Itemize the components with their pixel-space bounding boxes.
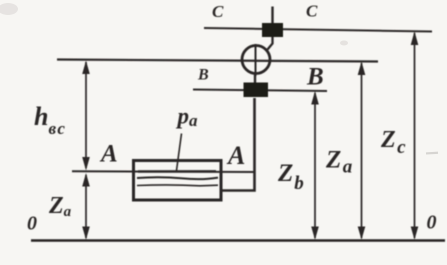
dimension Z_a (right, gauge line to datum)	[361, 63, 363, 238]
svg-text:C: C	[306, 2, 318, 21]
svg-text:A: A	[226, 141, 245, 170]
level line B	[193, 90, 327, 92]
faint scan smudge near gauge line right	[340, 41, 348, 46]
gauge vertical axis line	[255, 44, 257, 76]
level line C	[204, 28, 432, 32]
pipe from tank to riser (elbow)	[221, 98, 255, 191]
datum line O-O	[31, 239, 445, 242]
piezometric gauge level line	[57, 60, 378, 62]
valve C	[262, 23, 283, 37]
valve C stem	[271, 7, 273, 24]
pipe segment between valve B and gauge	[254, 73, 256, 84]
level line A	[72, 170, 254, 173]
leader line from p_a to liquid surface	[177, 134, 182, 171]
pipe from gauge up to valve C	[268, 35, 273, 50]
svg-text:0: 0	[27, 213, 37, 235]
svg-text:B: B	[197, 67, 209, 84]
pressure gauge U1 (circle)	[242, 46, 270, 74]
svg-text:A: A	[99, 141, 118, 168]
liquid surface (hatch lines)	[138, 170, 216, 173]
svg-text:0: 0	[427, 212, 437, 234]
dimension h_bc (gauge line to A)	[85, 62, 87, 168]
valve B	[244, 83, 269, 98]
dimension Z_c (C to datum)	[414, 33, 416, 238]
svg-text:C: C	[212, 2, 224, 21]
svg-text:B: B	[306, 64, 324, 91]
faint dash right of Z_c label	[426, 152, 438, 155]
faint scan smudge top-left	[0, 3, 18, 15]
dimension Z_a (left, A to datum)	[85, 175, 87, 238]
tank	[134, 161, 222, 201]
dimension Z_b (B to datum)	[314, 93, 316, 238]
